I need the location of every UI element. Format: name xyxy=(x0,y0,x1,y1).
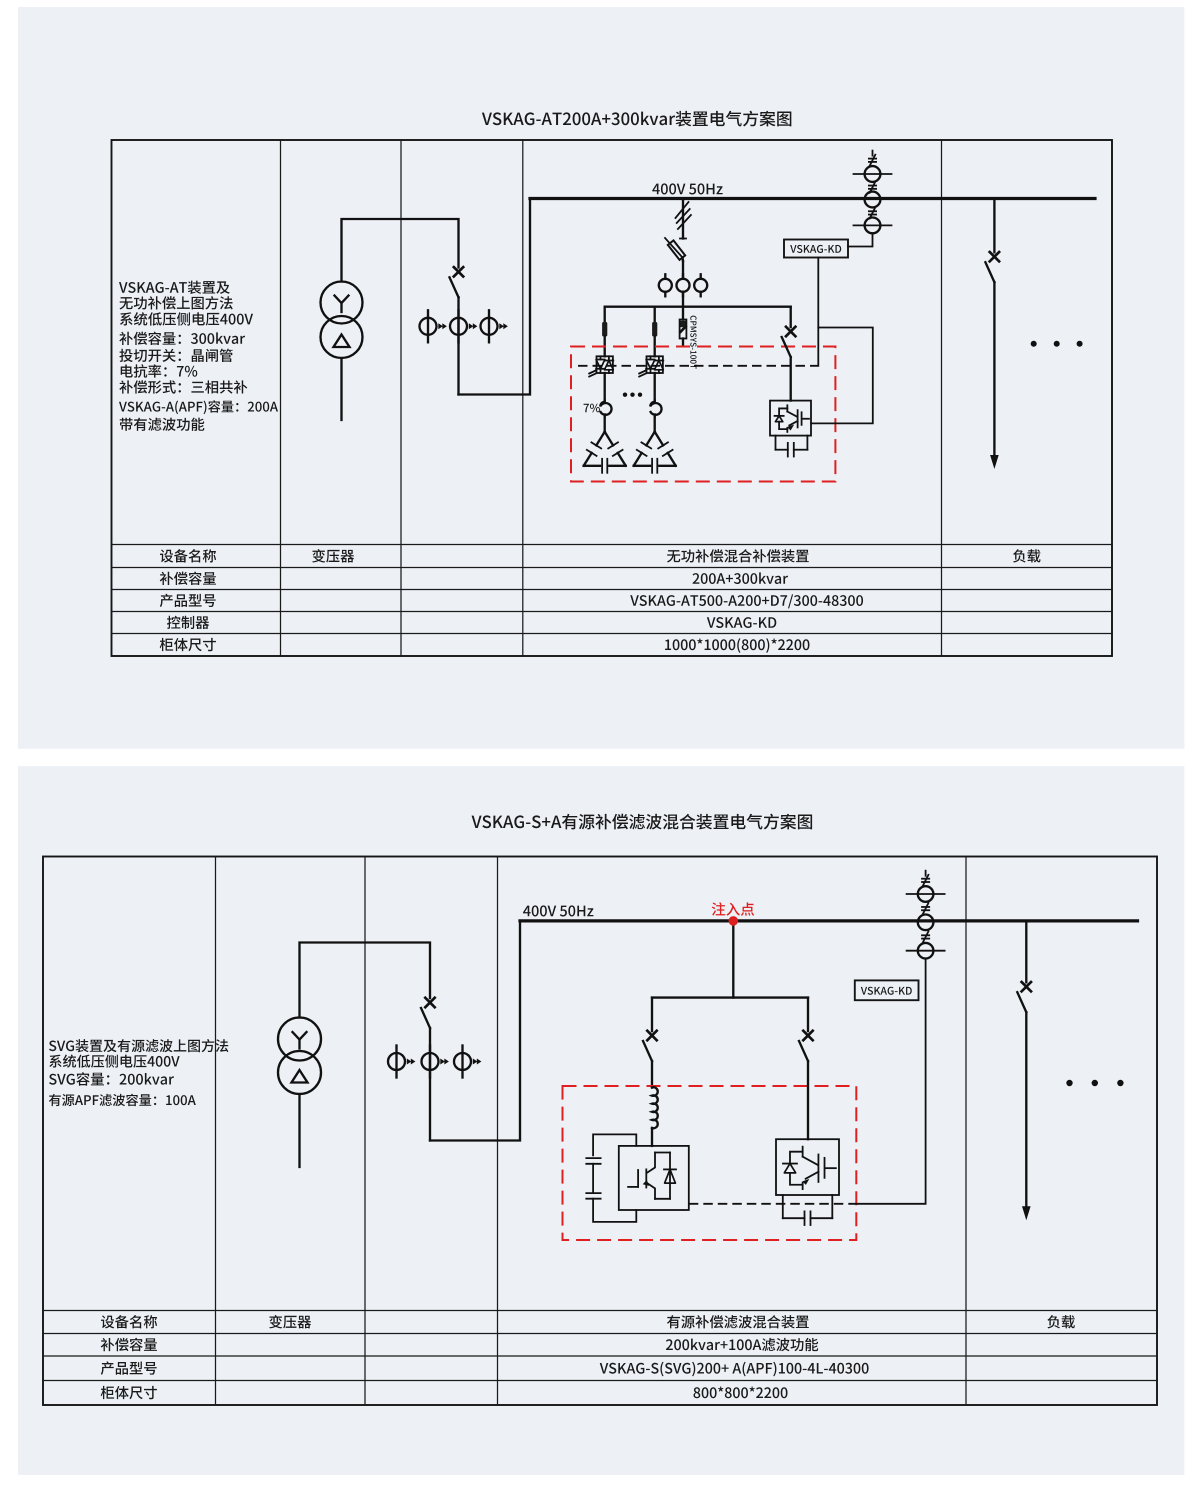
load feeder QF3 with arrow xyxy=(985,199,999,470)
fuse FU3 CPMSYS-100T xyxy=(680,320,687,339)
bottom panel background xyxy=(18,766,1184,1475)
reactor LK2 xyxy=(650,401,661,417)
current transformers CT2 (3x with arrows) xyxy=(388,1046,481,1078)
label 注入点 xyxy=(712,902,754,915)
bottom description line 4 xyxy=(49,1094,196,1106)
top table column line 1 xyxy=(280,140,282,656)
cell 补偿容量 (bottom) xyxy=(101,1338,157,1351)
top table row line 5 xyxy=(112,633,1113,635)
wire LK2 to capacitor bank C2 xyxy=(654,416,656,432)
top description line 9 xyxy=(120,418,205,431)
wire V1 to reactor LK1 xyxy=(604,373,606,401)
bottom table column line 4 xyxy=(965,857,967,1406)
bottom description line 2 xyxy=(49,1055,179,1068)
cell VSKAG-KD (table) xyxy=(707,617,776,628)
fuse FU1 xyxy=(602,322,607,337)
wire L2 to SVG module xyxy=(651,1128,653,1146)
current transformers CT1 (3x with arrows) xyxy=(420,310,508,342)
top table row line 3 xyxy=(112,589,1113,591)
wire QF5 to reactor L2 xyxy=(651,1061,653,1088)
gate control dashed line xyxy=(578,365,818,367)
breaker QF5 xyxy=(643,1031,657,1061)
control wire K1 down xyxy=(817,258,819,366)
top diagram title xyxy=(482,111,791,127)
label 7% xyxy=(584,404,600,413)
cell 柜体尺寸 xyxy=(160,638,216,651)
red dashed enclosure (compensation cabinet) xyxy=(571,347,835,482)
wire FU0 to sensor circles xyxy=(682,261,684,279)
wire QF6 to APF module xyxy=(807,1061,809,1139)
bottom description line 1 xyxy=(49,1039,228,1052)
APF module U3 (IGBT) xyxy=(776,1139,839,1195)
label 400V 50Hz (bottom) xyxy=(523,905,593,916)
bottom table column line 3 xyxy=(497,857,499,1406)
cell VSKAG-AT500-A200+D7/300-48300 xyxy=(630,594,863,608)
top table row line 2 xyxy=(112,567,1113,569)
controller VSKAG-KD box K2 xyxy=(855,980,919,1000)
wire split to breaker QF6 xyxy=(807,998,809,1032)
cell 产品型号 xyxy=(160,594,216,607)
DC capacitor C3 under U1 xyxy=(776,436,808,457)
bottom diagram title xyxy=(472,814,813,830)
wire T2 top to breaker QF4 xyxy=(300,943,431,1018)
cell 设备名称 xyxy=(160,549,216,562)
bus CT stack S2 xyxy=(907,871,945,959)
cell 无功补偿混合补偿装置 xyxy=(667,549,809,562)
cell 有源补偿滤波混合装置 xyxy=(667,1315,809,1328)
bottom table row line 4 xyxy=(43,1380,1157,1382)
cell 补偿容量 xyxy=(160,572,216,585)
top table row line 4 xyxy=(112,611,1113,613)
label 400V 50Hz xyxy=(652,183,722,194)
load ellipsis dots (bottom) xyxy=(1066,1080,1072,1086)
bottom table row line 2 xyxy=(43,1333,1157,1335)
bottom table outer frame xyxy=(43,857,1157,1406)
fuse switch FU0 (slanted) xyxy=(665,238,685,261)
reactor LK1 7% xyxy=(600,401,611,417)
top description line 5 xyxy=(119,349,232,362)
wire bus to isolator QS1 xyxy=(682,199,684,239)
top description line 8 xyxy=(119,400,278,414)
thyristor switch V2 xyxy=(639,356,663,376)
wire transformer T1 bottom stub xyxy=(340,358,342,420)
capacitor bank C1 (delta) xyxy=(584,432,626,473)
fuse FU2 xyxy=(652,322,657,337)
controller VSKAG-KD box K1 xyxy=(784,240,848,258)
bottom table column line 2 xyxy=(364,857,366,1406)
cell 控制器 xyxy=(167,616,209,629)
APF module U1 (IGBT) xyxy=(770,401,811,436)
cell 设备名称 (bottom) xyxy=(101,1315,157,1328)
bus 400V 50Hz (bottom) xyxy=(520,919,1138,922)
bus 400V 50Hz xyxy=(530,197,1095,200)
wire QF2 to APF module xyxy=(790,357,792,401)
wire C4 to C5 xyxy=(592,1164,594,1193)
top table outer frame xyxy=(112,140,1113,656)
bottom table row line 1 xyxy=(43,1310,1157,1312)
DC link wiring U2 xyxy=(593,1134,636,1155)
top table column line 2 xyxy=(400,140,402,656)
wire FU3 stub xyxy=(682,339,684,345)
wire branch to fuse FU1 xyxy=(604,307,606,322)
wire FU1 to thyristor V1 xyxy=(604,337,606,357)
wire branch to fuse FU3 xyxy=(682,307,684,320)
wire branch to fuse FU2 xyxy=(654,307,656,322)
wire CT1 to bus riser xyxy=(459,199,531,395)
cell 产品型号 (bottom) xyxy=(101,1361,157,1374)
transformer T1 xyxy=(321,282,363,359)
DC capacitor C5 xyxy=(586,1193,600,1199)
breaker QF1 xyxy=(450,267,464,297)
thyristor switch V1 xyxy=(589,356,613,376)
split bar xyxy=(652,996,808,998)
top description line 4 xyxy=(119,332,245,345)
load feeder QF7 with arrow xyxy=(1017,921,1031,1220)
wire T2 bottom stub xyxy=(298,1094,300,1167)
wire split to breaker QF5 xyxy=(651,998,653,1032)
ellipsis dots (more branches) xyxy=(623,393,627,397)
reactor L2 (coil) xyxy=(652,1087,658,1128)
breaker QF2 xyxy=(782,327,796,357)
cell 200A+300kvar xyxy=(693,572,789,584)
top table column line 3 xyxy=(522,140,524,656)
transformer T2 xyxy=(278,1018,321,1095)
control wire junction to CT stack xyxy=(856,959,925,1204)
SVG module U2 (IGBT bridge) xyxy=(619,1146,689,1210)
top panel background xyxy=(18,7,1184,749)
bottom table row line 3 xyxy=(43,1355,1157,1357)
cell VSKAG-S(SVG)200+ A(APF)100-4L-40300 xyxy=(600,1362,869,1377)
cell 800*800*2200 xyxy=(693,1387,787,1399)
sensor circles (3x) xyxy=(659,274,707,296)
bottom description line 3 xyxy=(49,1072,174,1086)
control wire K1 to U1 xyxy=(811,328,873,424)
top description line 2 xyxy=(120,296,233,309)
bottom table column line 1 xyxy=(215,857,217,1406)
cell 负载 (bottom) xyxy=(1047,1315,1074,1328)
DC capacitor C4 xyxy=(586,1158,600,1164)
cell 200kvar+100A滤波功能 xyxy=(666,1338,818,1351)
wire QF1 to CT row xyxy=(457,297,459,394)
wire V2 to reactor LK2 xyxy=(654,373,656,401)
wire S1 to K1 xyxy=(848,233,873,246)
breaker QF6 xyxy=(799,1031,813,1061)
load ellipsis dots xyxy=(1031,341,1037,347)
DC capacitor C6 under U3 xyxy=(783,1195,833,1225)
wire QF4 to CT row xyxy=(429,1028,431,1141)
wire FU2 to thyristor V2 xyxy=(654,337,656,357)
wire injection drop xyxy=(732,921,734,998)
cell 变压器 (bottom) xyxy=(269,1315,311,1328)
top description line 1 xyxy=(119,281,230,294)
breaker QF4 xyxy=(421,998,435,1028)
top description line 7 xyxy=(119,380,247,393)
wire transformer T1 top to breaker QF1 xyxy=(342,219,459,282)
top description line 3 xyxy=(120,312,253,326)
top table column line 4 xyxy=(941,140,943,656)
cell 负载 xyxy=(1013,549,1040,562)
isolator QS1 three-phase marks xyxy=(676,202,691,239)
wire sensors to branch bar xyxy=(682,292,684,307)
top table row line 1 xyxy=(112,544,1113,546)
capacitor bank C2 (delta) xyxy=(634,432,676,473)
cell 变压器 xyxy=(312,549,354,562)
top description line 6 xyxy=(121,364,198,378)
bus CT stack S1 xyxy=(854,151,892,234)
injection point node xyxy=(729,916,739,926)
wire branch bar to breaker QF2 xyxy=(790,307,792,327)
branch bar xyxy=(605,306,791,308)
control dashed line U2 to junction xyxy=(689,1203,857,1205)
wire CT2 to bus riser xyxy=(430,921,520,1141)
label CPMSYS-100T xyxy=(690,316,696,369)
red dashed enclosure (SVG+APF cabinet) xyxy=(563,1086,857,1240)
DC link return to U2 xyxy=(593,1199,636,1222)
cell 柜体尺寸 (bottom) xyxy=(101,1386,157,1399)
cell 1000*1000(800)*2200 xyxy=(665,638,809,653)
wire LK1 to capacitor bank C1 xyxy=(604,416,606,432)
